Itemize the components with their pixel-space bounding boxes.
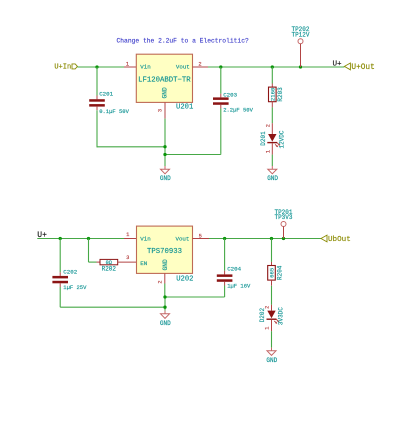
svg-text:C201: C201 — [99, 91, 113, 98]
svg-text:LF120ABDT−TR: LF120ABDT−TR — [138, 77, 191, 85]
svg-text:TPS70933: TPS70933 — [147, 248, 182, 256]
svg-text:GND: GND — [160, 320, 171, 327]
svg-text:2160: 2160 — [269, 87, 276, 101]
svg-text:C202: C202 — [63, 268, 77, 275]
svg-text:0.1µF 50V: 0.1µF 50V — [99, 108, 129, 115]
svg-text:Vin: Vin — [140, 64, 150, 71]
svg-text:3V3DC: 3V3DC — [278, 307, 285, 325]
svg-text:1: 1 — [126, 62, 129, 68]
svg-text:2: 2 — [265, 124, 271, 127]
svg-text:U+In: U+In — [54, 64, 71, 72]
svg-text:C204: C204 — [227, 266, 241, 273]
svg-text:D202: D202 — [259, 308, 266, 323]
svg-text:5: 5 — [199, 234, 202, 240]
svg-text:1: 1 — [126, 232, 129, 238]
svg-text:2.2µF 50V: 2.2µF 50V — [223, 107, 253, 114]
svg-text:665: 665 — [269, 268, 276, 278]
svg-text:EN: EN — [140, 260, 147, 267]
svg-text:GND: GND — [160, 175, 171, 182]
svg-text:1µF 16V: 1µF 16V — [227, 283, 251, 290]
svg-text:TP12V: TP12V — [291, 31, 309, 38]
svg-text:U202: U202 — [176, 276, 193, 284]
svg-text:1: 1 — [265, 150, 271, 153]
svg-text:GND: GND — [267, 175, 278, 182]
svg-text:1µF 25V: 1µF 25V — [63, 284, 87, 291]
svg-text:2: 2 — [198, 62, 201, 68]
svg-text:D201: D201 — [260, 131, 267, 146]
svg-text:R203: R203 — [277, 87, 284, 102]
svg-text:Vout: Vout — [175, 236, 189, 243]
svg-text:C203: C203 — [223, 92, 237, 99]
svg-text:1: 1 — [265, 327, 271, 330]
svg-text:3: 3 — [158, 109, 164, 112]
svg-text:3: 3 — [126, 255, 129, 261]
svg-text:GND: GND — [266, 357, 277, 364]
svg-text:Vin: Vin — [140, 236, 150, 243]
svg-text:Vout: Vout — [176, 64, 190, 71]
svg-text:2: 2 — [157, 280, 163, 283]
svg-text:U+Out: U+Out — [351, 64, 374, 72]
svg-text:TP3V3: TP3V3 — [274, 214, 292, 221]
svg-text:R204: R204 — [276, 265, 283, 280]
svg-text:R202: R202 — [102, 266, 117, 273]
svg-text:GND: GND — [162, 259, 169, 270]
svg-text:U201: U201 — [176, 104, 193, 112]
svg-text:Change the 2.2uF to a Electrol: Change the 2.2uF to a Electrolitic? — [117, 37, 249, 44]
svg-text:12VDC: 12VDC — [278, 130, 285, 148]
svg-text:UbOut: UbOut — [328, 236, 351, 244]
svg-text:U+: U+ — [333, 61, 343, 69]
svg-text:GND: GND — [162, 87, 169, 98]
